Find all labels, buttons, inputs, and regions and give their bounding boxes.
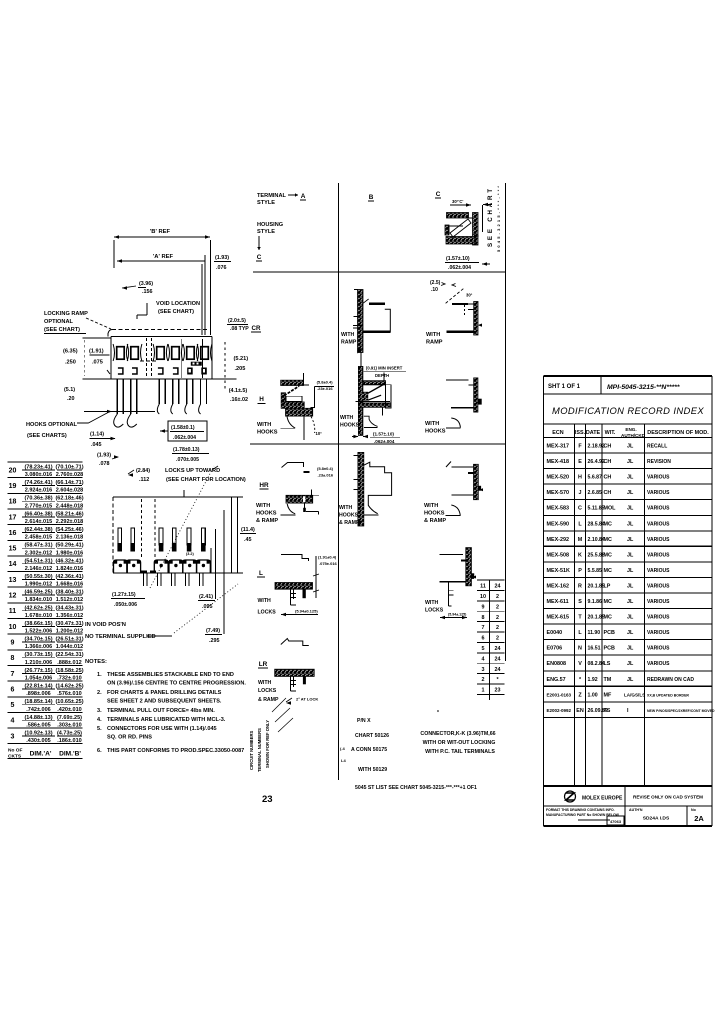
svg-text:(1.91): (1.91) xyxy=(89,349,104,355)
bottom view feet row xyxy=(114,548,212,573)
front view: A REF dimension xyxy=(117,254,205,335)
svg-text:.045: .045 xyxy=(91,442,102,448)
svg-text:4: 4 xyxy=(11,718,15,725)
svg-text:.20: .20 xyxy=(67,396,75,402)
rotated reference texts xyxy=(249,698,293,772)
svg-text:1.92: 1.92 xyxy=(588,677,598,683)
svg-text:(SEE CHART FOR LOCATION): (SEE CHART FOR LOCATION) xyxy=(166,477,246,483)
svg-text:(1.58±0.1): (1.58±0.1) xyxy=(171,425,195,431)
svg-text:MEX-520: MEX-520 xyxy=(547,475,569,481)
svg-text:1: 1 xyxy=(482,688,485,694)
hooks optional note xyxy=(26,413,108,440)
svg-text:WITH: WITH xyxy=(340,415,354,421)
svg-text:FS: FS xyxy=(604,708,611,714)
svg-text:11: 11 xyxy=(9,608,17,615)
svg-text:.742±.006: .742±.006 xyxy=(26,707,50,713)
svg-text:E: E xyxy=(578,459,582,465)
svg-text:24: 24 xyxy=(495,584,501,590)
svg-text:TERMINALS ARE LUBRICATED WITH: TERMINALS ARE LUBRICATED WITH MCL-3. xyxy=(107,717,226,723)
svg-text:2.760±.028: 2.760±.028 xyxy=(56,472,84,478)
svg-text:MC: MC xyxy=(604,615,612,621)
svg-text:(5.94±0.125): (5.94±0.125) xyxy=(295,609,318,614)
svg-text:VARIOUS: VARIOUS xyxy=(647,661,670,667)
svg-text:MEX-615: MEX-615 xyxy=(547,615,569,621)
svg-text:9: 9 xyxy=(11,639,15,646)
svg-text:DIM.'A': DIM.'A' xyxy=(30,751,52,758)
svg-text:2° AT LOCK: 2° AT LOCK xyxy=(296,697,318,702)
svg-text:DIM.'B': DIM.'B' xyxy=(59,751,81,758)
svg-text:.186±.010: .186±.010 xyxy=(57,738,81,744)
svg-text:(1.14): (1.14) xyxy=(90,432,104,438)
svg-text:(2.0±.5): (2.0±.5) xyxy=(228,318,246,324)
svg-text:CHART 50126: CHART 50126 xyxy=(355,733,389,739)
svg-text:(1.78±0.13): (1.78±0.13) xyxy=(173,447,200,453)
section L-C with locks xyxy=(425,548,476,620)
svg-text:HR: HR xyxy=(259,482,269,489)
svg-text:1.366±.006: 1.366±.006 xyxy=(25,644,53,650)
dim (5.1)/.20 left xyxy=(64,387,155,413)
svg-text:PCB: PCB xyxy=(604,646,615,652)
svg-text:24: 24 xyxy=(495,656,501,662)
svg-text:(7.49): (7.49) xyxy=(206,628,220,634)
svg-text:XX,B UPDATED BORDER: XX,B UPDATED BORDER xyxy=(647,693,689,697)
section CR-C with ramp xyxy=(426,280,482,346)
matrix row label CR xyxy=(251,325,261,332)
svg-text:(6.35): (6.35) xyxy=(63,349,78,355)
svg-text:WITH: WITH xyxy=(341,332,355,338)
svg-text:(0.91) MIN INSERT: (0.91) MIN INSERT xyxy=(366,366,403,371)
svg-text:.10: .10 xyxy=(431,287,438,293)
svg-text:(1.93): (1.93) xyxy=(215,255,229,261)
leader lines bottom view xyxy=(150,466,238,634)
svg-text:VARIOUS: VARIOUS xyxy=(647,615,670,621)
svg-text:1.: 1. xyxy=(97,672,102,678)
svg-text:JL: JL xyxy=(627,646,634,652)
svg-text:2: 2 xyxy=(496,636,499,642)
svg-text:LOCKING RAMP: LOCKING RAMP xyxy=(44,311,88,317)
svg-text:.075: .075 xyxy=(92,360,103,366)
svg-text:2.292±.018: 2.292±.018 xyxy=(56,519,84,525)
locks up toward note xyxy=(165,466,246,483)
svg-text:5.5.85: 5.5.85 xyxy=(588,568,603,574)
svg-text:ISS.: ISS. xyxy=(575,430,586,436)
svg-text:WITH: WITH xyxy=(426,332,440,338)
svg-text:DEPTH: DEPTH xyxy=(375,373,389,378)
svg-text:JL: JL xyxy=(627,568,634,574)
svg-text:2: 2 xyxy=(496,604,499,610)
svg-text:(1.91±0.4): (1.91±0.4) xyxy=(318,555,337,560)
svg-text:WITH: WITH xyxy=(256,503,270,509)
svg-text:SD24A I.DS: SD24A I.DS xyxy=(643,816,670,822)
svg-text:*: * xyxy=(437,710,439,716)
svg-text:E0706: E0706 xyxy=(547,646,563,652)
svg-text:19: 19 xyxy=(9,483,17,490)
svg-text:TERMINAL: TERMINAL xyxy=(257,193,286,199)
dim (7.49)/.295 xyxy=(205,628,222,644)
svg-text:30°'C': 30°'C' xyxy=(452,199,463,204)
svg-text:17: 17 xyxy=(9,514,17,521)
svg-text:2.136±.018: 2.136±.018 xyxy=(56,535,84,541)
svg-text:DESCRIPTION OF MOD.: DESCRIPTION OF MOD. xyxy=(647,430,709,436)
svg-text:V: V xyxy=(578,661,582,667)
svg-text:M: M xyxy=(578,537,583,543)
svg-text:LOCKS: LOCKS xyxy=(258,688,277,694)
svg-text:LOCKS: LOCKS xyxy=(258,610,277,616)
svg-text:VARIOUS: VARIOUS xyxy=(647,599,670,605)
svg-text:12: 12 xyxy=(9,593,17,600)
dim (2.0) .08 TYP xyxy=(227,318,249,332)
svg-text:(3.2): (3.2) xyxy=(186,552,195,556)
svg-text:VARIOUS: VARIOUS xyxy=(647,506,670,512)
svg-text:LA/GS/LS: LA/GS/LS xyxy=(624,692,645,697)
svg-text:2.770±.015: 2.770±.015 xyxy=(25,503,53,509)
svg-text:HOUSING: HOUSING xyxy=(257,222,283,228)
svg-text:PCB: PCB xyxy=(604,630,615,636)
svg-text:6.: 6. xyxy=(97,748,102,754)
svg-text:C: C xyxy=(257,254,262,261)
dim (3.96)/.156 xyxy=(122,281,153,295)
pins under bottom view xyxy=(144,573,204,586)
svg-text:11.90: 11.90 xyxy=(588,630,601,636)
svg-text:FOR CHARTS & PANEL DRILLING DE: FOR CHARTS & PANEL DRILLING DETAILS xyxy=(107,690,222,696)
see chart rotated text xyxy=(487,186,501,252)
svg-text:J: J xyxy=(579,490,582,496)
svg-text:ECN: ECN xyxy=(552,430,563,436)
svg-text:'B' REF: 'B' REF xyxy=(150,229,171,235)
svg-text:.250: .250 xyxy=(65,360,76,366)
dim (1.14)/.045 xyxy=(89,432,115,449)
svg-text:(1.57±.10): (1.57±.10) xyxy=(373,432,394,437)
svg-text:.095: .095 xyxy=(202,604,213,610)
dim (2.84)/.112 xyxy=(128,468,150,483)
svg-text:1.678±.010: 1.678±.010 xyxy=(25,613,53,619)
terminal style header labels xyxy=(256,191,441,261)
svg-text:LOCKS UP TOWARD: LOCKS UP TOWARD xyxy=(165,468,220,474)
svg-text:11: 11 xyxy=(480,584,486,590)
svg-text:H: H xyxy=(259,396,264,403)
svg-text:.076: .076 xyxy=(216,265,227,271)
svg-text:REDRAWN ON CAD: REDRAWN ON CAD xyxy=(647,677,694,683)
title block: molex europe / revise only on cad system xyxy=(544,786,713,826)
svg-text:.078: .078 xyxy=(99,461,110,467)
svg-text:(.4: (.4 xyxy=(340,746,345,751)
svg-text:VARIOUS: VARIOUS xyxy=(647,490,670,496)
svg-text:CONNECTOR,K-K (3.96)TM,66: CONNECTOR,K-K (3.96)TM,66 xyxy=(420,731,495,737)
circuit mini table xyxy=(477,580,505,700)
svg-text:1.00: 1.00 xyxy=(588,692,598,698)
svg-text:JL: JL xyxy=(627,630,634,636)
svg-text:WITH: WITH xyxy=(425,421,439,427)
svg-text:.23±.016: .23±.016 xyxy=(318,473,334,478)
svg-text:MC: MC xyxy=(604,521,612,527)
section HR-C hooks and ramp xyxy=(424,462,483,525)
section H-B with hooks xyxy=(340,352,406,444)
svg-text:TERMINAL NUMBERS: TERMINAL NUMBERS xyxy=(257,728,262,772)
svg-text:.576±.010: .576±.010 xyxy=(57,691,81,697)
svg-text:14: 14 xyxy=(9,561,17,568)
svg-text:.420±.010: .420±.010 xyxy=(57,707,81,713)
svg-text:JL: JL xyxy=(627,475,634,481)
svg-text:LOCKS: LOCKS xyxy=(425,608,444,614)
svg-text:HOOKS: HOOKS xyxy=(424,511,445,517)
svg-text:2: 2 xyxy=(482,677,485,683)
svg-text:CH: CH xyxy=(604,459,612,465)
bottom chart reference line xyxy=(355,785,477,791)
dim (1.57+-.10)/.062+-.004 under C section xyxy=(445,256,490,271)
svg-text:(2.41): (2.41) xyxy=(199,594,213,600)
svg-text:(11.4): (11.4) xyxy=(241,527,255,533)
svg-text:MEX-583: MEX-583 xyxy=(547,506,569,512)
svg-text:MOLEX EUROPE: MOLEX EUROPE xyxy=(582,796,623,802)
svg-text:LS: LS xyxy=(604,661,611,667)
section C-C housing C terminal C xyxy=(445,199,492,245)
svg-text:5.: 5. xyxy=(97,726,102,732)
svg-text:9.1.86: 9.1.86 xyxy=(588,599,603,605)
svg-text:2: 2 xyxy=(496,615,499,621)
svg-text:2.458±.015: 2.458±.015 xyxy=(25,535,53,541)
svg-text:N: N xyxy=(578,646,582,652)
svg-text:(SEE CHARTS): (SEE CHARTS) xyxy=(27,433,67,439)
svg-text:(2.5): (2.5) xyxy=(430,280,441,286)
svg-text:VARIOUS: VARIOUS xyxy=(647,646,670,652)
svg-text:WITH: WITH xyxy=(257,422,271,428)
svg-text:STYLE: STYLE xyxy=(257,200,275,206)
svg-text:THESE ASSEMBLIES STACKABLE END: THESE ASSEMBLIES STACKABLE END TO END xyxy=(107,672,234,678)
svg-text:RAMP: RAMP xyxy=(341,340,357,346)
bottom view outline xyxy=(113,490,232,573)
svg-text:2.146±.012: 2.146±.012 xyxy=(25,566,53,572)
svg-text:2.924±.016: 2.924±.016 xyxy=(25,488,53,494)
svg-text:.062±.004: .062±.004 xyxy=(448,265,471,271)
svg-text:JL: JL xyxy=(627,537,634,543)
svg-text:MEX-317: MEX-317 xyxy=(547,444,569,450)
svg-text:B: B xyxy=(369,194,374,201)
svg-text:JL: JL xyxy=(627,490,634,496)
svg-text:NO TERMINAL SUPPLIED: NO TERMINAL SUPPLIED xyxy=(85,634,156,640)
svg-text:WITH: WITH xyxy=(258,680,272,686)
svg-text:16: 16 xyxy=(9,530,17,537)
contact windows xyxy=(107,338,212,378)
svg-text:(5.1): (5.1) xyxy=(64,387,75,393)
svg-text:VARIOUS: VARIOUS xyxy=(647,521,670,527)
svg-text:1.824±.016: 1.824±.016 xyxy=(56,566,84,572)
svg-text:E0040: E0040 xyxy=(547,630,563,636)
svg-text:1.200±.012: 1.200±.012 xyxy=(56,629,84,635)
svg-text:(SEE CHART): (SEE CHART) xyxy=(44,327,80,333)
svg-text:6: 6 xyxy=(482,636,485,642)
svg-text:MEX-162: MEX-162 xyxy=(547,583,569,589)
svg-text:MC: MC xyxy=(604,537,612,543)
svg-text:24: 24 xyxy=(495,646,501,652)
notes block xyxy=(85,659,246,754)
svg-text:JL: JL xyxy=(627,599,634,605)
svg-text:2.: 2. xyxy=(97,690,102,696)
svg-text:.888±.012: .888±.012 xyxy=(57,660,81,666)
svg-text:NEW P/NOS/SPEC/2XREF/CONT MOVE: NEW P/NOS/SPEC/2XREF/CONT MOVED xyxy=(647,709,715,713)
svg-text:P/N X: P/N X xyxy=(357,718,371,724)
svg-text:CR: CR xyxy=(252,325,261,332)
svg-text:CONNECTORS FOR USE WITH (1.14): CONNECTORS FOR USE WITH (1.14)/.045 xyxy=(107,726,217,732)
locking ramp note xyxy=(44,311,111,334)
svg-text:47063: 47063 xyxy=(610,819,622,824)
svg-text:2.604±.028: 2.604±.028 xyxy=(56,488,84,494)
svg-text:3.: 3. xyxy=(97,708,102,714)
svg-text:(2.84): (2.84) xyxy=(136,468,150,474)
svg-text:1.990±.012: 1.990±.012 xyxy=(25,582,53,588)
svg-text:ON (3.96)/.156 CENTRE TO CENTR: ON (3.96)/.156 CENTRE TO CENTRE PROGRESS… xyxy=(107,681,246,687)
svg-text:WIT.: WIT. xyxy=(605,430,616,436)
svg-text:.050±.006: .050±.006 xyxy=(114,602,137,608)
svg-text:LR: LR xyxy=(259,661,268,668)
svg-text:JL: JL xyxy=(627,615,634,621)
svg-text:(3.96): (3.96) xyxy=(139,281,153,287)
section LR-A locks and ramp xyxy=(258,639,318,705)
part/chart callouts xyxy=(340,710,439,773)
svg-text:.732±.010: .732±.010 xyxy=(57,675,81,681)
svg-text:(SEE CHART): (SEE CHART) xyxy=(158,309,194,315)
svg-text:1.054±.006: 1.054±.006 xyxy=(25,675,53,681)
svg-text:1.980±.016: 1.980±.016 xyxy=(56,550,84,556)
svg-text:LP: LP xyxy=(604,583,611,589)
svg-text:7: 7 xyxy=(11,671,15,678)
svg-text:7: 7 xyxy=(482,625,485,631)
section L-A with locks xyxy=(257,555,338,617)
svg-text:No: No xyxy=(691,808,697,812)
svg-text:.45: .45 xyxy=(244,537,252,543)
svg-text:CH: CH xyxy=(604,444,612,450)
svg-text:JL: JL xyxy=(627,506,634,512)
svg-text:MEX-611: MEX-611 xyxy=(547,599,569,605)
svg-text:& RAMP: & RAMP xyxy=(339,520,360,526)
svg-text:& RAMP: & RAMP xyxy=(424,518,446,524)
svg-text:EN: EN xyxy=(576,708,584,714)
svg-text:JL: JL xyxy=(627,661,634,667)
svg-text:2: 2 xyxy=(496,594,499,600)
svg-text:SEE SHEET 2 AND SUBSEQUENT SHE: SEE SHEET 2 AND SUBSEQUENT SHEETS. xyxy=(107,699,222,705)
svg-text:JL: JL xyxy=(627,459,634,465)
svg-text:3.080±.016: 3.080±.016 xyxy=(25,472,53,478)
svg-text:SQ. OR RD. PINS: SQ. OR RD. PINS xyxy=(107,735,152,741)
front view: B REF dimension xyxy=(114,229,211,335)
svg-text:VOID LOCATION: VOID LOCATION xyxy=(156,301,200,307)
svg-text:P: P xyxy=(578,568,582,574)
svg-text:MC: MC xyxy=(604,568,612,574)
svg-text:2.302±.012: 2.302±.012 xyxy=(25,550,53,556)
svg-text:ENG.57: ENG.57 xyxy=(547,677,566,683)
svg-text:ENG.: ENG. xyxy=(625,427,636,432)
svg-text:JL: JL xyxy=(627,583,634,589)
svg-text:RAMP: RAMP xyxy=(426,340,443,346)
svg-text:23: 23 xyxy=(262,794,273,805)
svg-text:20: 20 xyxy=(9,467,17,474)
svg-text:VARIOUS: VARIOUS xyxy=(647,552,670,558)
svg-text:& RAMP: & RAMP xyxy=(258,697,279,703)
svg-text:.156: .156 xyxy=(142,289,153,295)
svg-text:.586±.005: .586±.005 xyxy=(26,722,50,728)
dim (1.93)/.076 right top xyxy=(202,255,231,335)
dim (1.78+-0.13)/.070+-.005 xyxy=(172,447,209,463)
svg-text:30°: 30° xyxy=(466,293,473,298)
svg-text:4: 4 xyxy=(482,656,485,662)
svg-text:.430±.005: .430±.005 xyxy=(26,738,50,744)
svg-text:L4: L4 xyxy=(341,758,346,763)
dim (1.58+-0.1)/.062+-.004 boxed xyxy=(160,421,207,441)
svg-text:VARIOUS: VARIOUS xyxy=(647,568,670,574)
svg-text:HOOKS OPTIONAL: HOOKS OPTIONAL xyxy=(26,422,78,428)
svg-text:.16±.02: .16±.02 xyxy=(230,397,248,403)
svg-text:OPTIONAL: OPTIONAL xyxy=(44,319,73,325)
modification record index table xyxy=(544,376,715,826)
svg-text:IN VOID POS'N: IN VOID POS'N xyxy=(85,622,126,628)
dim (6.35)/.250 xyxy=(63,338,111,379)
svg-text:1.356±.012: 1.356±.012 xyxy=(56,613,84,619)
svg-text:15: 15 xyxy=(9,546,17,553)
svg-text:2.614±.015: 2.614±.015 xyxy=(25,519,53,525)
svg-text:(5.8±0.4): (5.8±0.4) xyxy=(317,380,334,385)
dim (11.4)/.45 xyxy=(232,497,257,573)
section HR-B hooks and ramp xyxy=(339,452,392,526)
svg-text:.303±.010: .303±.010 xyxy=(57,722,81,728)
pins below body xyxy=(114,379,207,427)
svg-text:REVISE ONLY ON CAD SYSTEM: REVISE ONLY ON CAD SYSTEM xyxy=(633,795,703,800)
svg-text:5: 5 xyxy=(11,702,15,709)
svg-text:MC: MC xyxy=(604,599,612,605)
svg-text:2.448±.018: 2.448±.018 xyxy=(56,503,84,509)
svg-text:CH: CH xyxy=(604,490,612,496)
svg-text:No OF: No OF xyxy=(8,748,22,754)
svg-text:.23±.016: .23±.016 xyxy=(317,386,333,391)
svg-text:MEX-292: MEX-292 xyxy=(547,537,569,543)
svg-text:8: 8 xyxy=(11,655,15,662)
svg-text:23: 23 xyxy=(495,688,501,694)
svg-text:5: 5 xyxy=(482,646,485,652)
svg-text:TM: TM xyxy=(604,677,612,683)
svg-text:13: 13 xyxy=(9,577,17,584)
svg-text:JL: JL xyxy=(627,552,634,558)
svg-text:HOOKS: HOOKS xyxy=(339,513,359,519)
svg-text:(1.27±.15): (1.27±.15) xyxy=(112,592,136,598)
dim (1.27+-.15)/.050+-.006 xyxy=(111,592,145,608)
svg-text:A: A xyxy=(301,193,306,200)
svg-text:E2002-0992: E2002-0992 xyxy=(547,708,572,713)
svg-text:E2001-0163: E2001-0163 xyxy=(547,692,572,697)
svg-text:1.210±.006: 1.210±.006 xyxy=(25,660,53,666)
svg-text:2A: 2A xyxy=(694,814,704,823)
svg-text:THIS PART CONFORMS TO PROD.SPE: THIS PART CONFORMS TO PROD.SPEC.33050-00… xyxy=(107,748,244,754)
section H-C with hooks xyxy=(425,378,482,435)
dimension chart table xyxy=(8,462,84,760)
svg-text:VARIOUS: VARIOUS xyxy=(647,583,670,589)
svg-text:HOOKS: HOOKS xyxy=(257,430,278,436)
svg-text:.295: .295 xyxy=(209,638,220,644)
svg-text:MEX-418: MEX-418 xyxy=(547,459,569,465)
svg-text:DATE: DATE xyxy=(586,430,601,436)
svg-text:VARIOUS: VARIOUS xyxy=(647,537,670,543)
svg-text:24: 24 xyxy=(495,667,501,673)
svg-text:2: 2 xyxy=(496,625,499,631)
svg-text:CKTS: CKTS xyxy=(8,754,22,760)
svg-text:HOOKS: HOOKS xyxy=(256,511,277,517)
in void posn note xyxy=(85,622,172,640)
svg-text:.205: .205 xyxy=(235,366,246,372)
svg-text:5045 ST LIST SEE CHART 5045-: 5045 ST LIST SEE CHART 5045-3215-***-***… xyxy=(355,785,477,791)
svg-text:1.044±.012: 1.044±.012 xyxy=(56,644,84,650)
svg-text:TERMINAL PULL OUT FORCE= 4lbs: TERMINAL PULL OUT FORCE= 4lbs MIN. xyxy=(107,708,215,714)
svg-text:L: L xyxy=(259,570,263,577)
svg-text:MEX-51K: MEX-51K xyxy=(547,568,570,574)
svg-text:REVISION: REVISION xyxy=(647,459,671,465)
svg-text:WITH OR WIT-OUT LOCKING: WITH OR WIT-OUT LOCKING xyxy=(423,740,496,746)
